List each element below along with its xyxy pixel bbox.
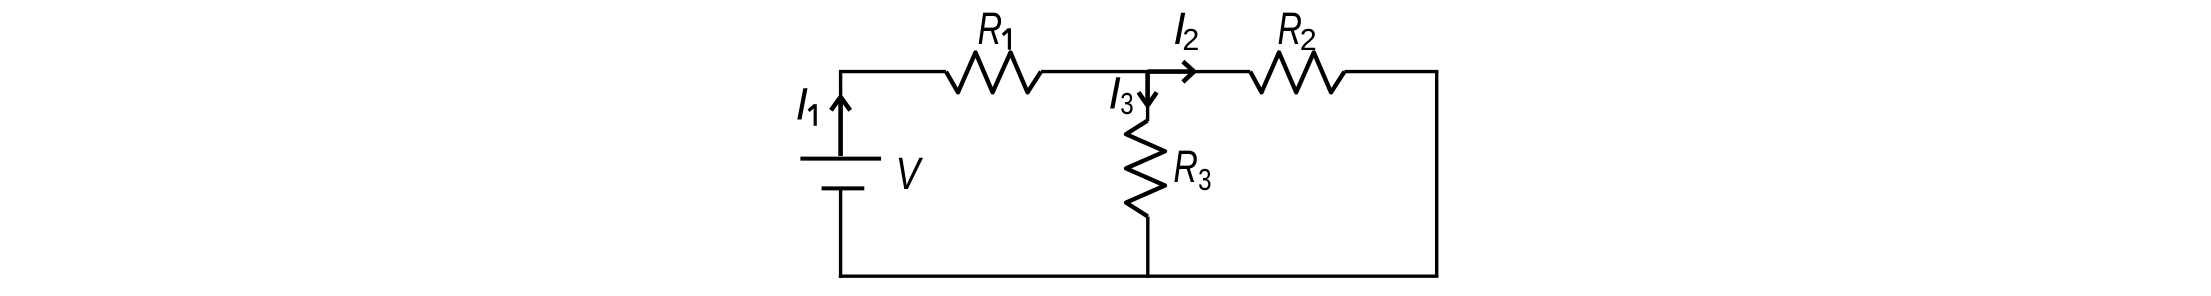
svg-text:V: V — [896, 148, 924, 199]
svg-text:2: 2 — [1300, 23, 1317, 57]
svg-text:3: 3 — [1198, 163, 1211, 197]
label I3 — [1108, 67, 1133, 121]
wire bottom segment — [839, 275, 1439, 278]
wire top-middle segment — [1041, 70, 1250, 73]
svg-text:R: R — [1278, 3, 1303, 54]
svg-text:I: I — [796, 78, 809, 129]
label R1 — [978, 3, 1010, 54]
svg-text:2: 2 — [1182, 23, 1199, 57]
resistor R3 — [1126, 121, 1165, 217]
resistor R2 — [1250, 52, 1344, 92]
svg-text:3: 3 — [1120, 87, 1133, 121]
current arrow I2 — [1148, 62, 1194, 82]
current arrow I3 — [1139, 72, 1157, 106]
resistor R1 — [946, 52, 1041, 92]
wire top-left segment — [841, 72, 946, 156]
wire middle-top segment — [1146, 72, 1149, 121]
wire middle-bottom segment — [1146, 217, 1149, 278]
svg-text:R: R — [1173, 141, 1198, 192]
current arrow I1 — [831, 97, 850, 156]
battery V — [800, 159, 881, 189]
label R3 — [1173, 141, 1211, 197]
svg-text:R: R — [978, 3, 1003, 54]
label I2 — [1173, 3, 1199, 57]
wire left-bottom segment — [839, 188, 842, 278]
wire top-right segment — [1345, 72, 1437, 277]
label R2 — [1278, 3, 1317, 57]
svg-text:I: I — [1108, 67, 1121, 118]
label I1 — [796, 78, 816, 129]
